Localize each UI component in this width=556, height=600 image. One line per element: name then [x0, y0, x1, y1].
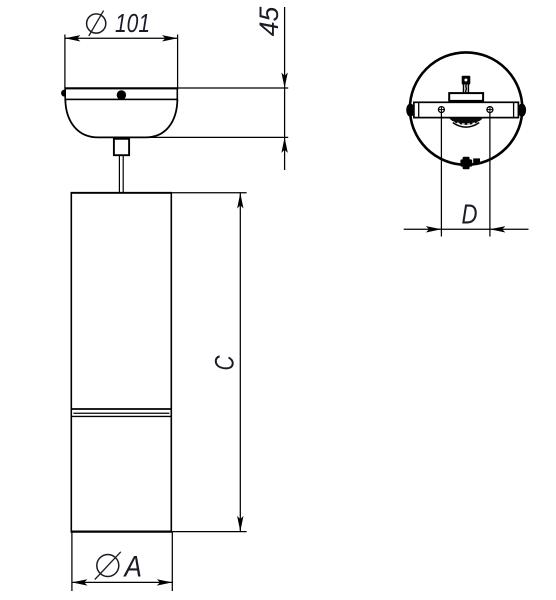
bracket right end line [513, 102, 515, 117]
label 101 [115, 8, 150, 38]
svg-text:45: 45 [254, 7, 284, 37]
bottom small nut [473, 158, 480, 163]
bracket left tab [406, 104, 414, 117]
extension line right of dim A [171, 532, 173, 591]
canopy center screw dot [117, 90, 126, 99]
bracket screw left [438, 106, 445, 113]
lamp body cylinder [71, 193, 173, 532]
bottom screw plus [460, 157, 472, 170]
extension line bottom of dim C [172, 531, 247, 533]
suspension cable [119, 156, 123, 193]
dimension line diameter 101 [65, 35, 178, 41]
canopy left tab [61, 90, 68, 97]
extension line bottom of dim 45 [150, 136, 288, 138]
label A [123, 550, 142, 583]
cord grip [114, 139, 129, 155]
dimension line C [237, 193, 243, 531]
dimension line diameter A [72, 579, 172, 585]
svg-text:C: C [210, 355, 240, 370]
extension line right of dim D [489, 113, 491, 237]
cable gland cap [462, 76, 471, 85]
label D [462, 198, 478, 229]
body seam lower line [71, 415, 171, 417]
extension line top of dim 45 [178, 87, 288, 89]
svg-text:A: A [123, 550, 142, 583]
bracket right tab [518, 104, 526, 117]
cable gland stem [464, 85, 469, 94]
dome edge dark chord [449, 118, 483, 125]
bracket screw right [486, 106, 493, 113]
top view circle [410, 52, 522, 164]
bracket left end line [418, 102, 420, 117]
terminal plate [449, 93, 483, 101]
label 45 [254, 7, 284, 37]
extension line left of dim D [440, 113, 442, 237]
label diameter symbol of 101 [87, 11, 106, 36]
label C [210, 355, 240, 370]
mounting bracket bar [414, 102, 519, 117]
extension line right of dim 101 [177, 35, 179, 89]
body seam upper line [71, 408, 171, 410]
svg-text:101: 101 [115, 8, 150, 38]
svg-text:D: D [462, 198, 478, 229]
extension line top of dim C [172, 192, 247, 194]
dome rim arc [453, 123, 479, 128]
canopy mounting band [64, 88, 178, 99]
dimension line D [404, 226, 529, 232]
label diameter symbol of A [95, 552, 121, 580]
extension line left of dim 101 [64, 35, 66, 89]
canopy dome [65, 99, 177, 137]
dimension line 45 [281, 7, 287, 170]
extension line left of dim A [71, 532, 73, 591]
body seam ring line [73, 412, 169, 414]
